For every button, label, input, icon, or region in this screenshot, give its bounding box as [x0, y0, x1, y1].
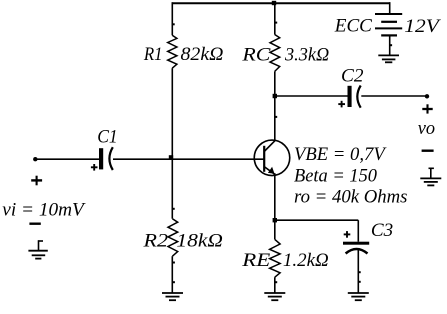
wire battery to ground: [389, 35, 391, 55]
svg-text:R1: R1: [143, 44, 163, 65]
svg-text:1.2kΩ: 1.2kΩ: [283, 250, 329, 271]
svg-text:82kΩ: 82kΩ: [181, 44, 224, 65]
capacitor C1: [99, 148, 103, 169]
wire RC top lead: [274, 2, 276, 34]
svg-text:Beta = 150: Beta = 150: [294, 166, 377, 187]
wire top rail: [173, 2, 391, 4]
ground under R2: [162, 292, 183, 294]
svg-text:VBE = 0,7V: VBE = 0,7V: [294, 144, 387, 165]
resistor R2: [168, 219, 178, 257]
svg-text:ECC: ECC: [334, 16, 372, 37]
resistor R1: [168, 35, 177, 68]
node collector junction: [273, 94, 277, 98]
wire input to C1: [35, 158, 99, 160]
capacitor C3: [343, 242, 369, 245]
plus of vo: [422, 108, 432, 110]
plus of C3: [344, 233, 351, 235]
svg-text:18kΩ: 18kΩ: [176, 230, 223, 251]
capacitor C2: [348, 86, 352, 107]
wire R1 bottom to base node: [171, 68, 173, 159]
wire emitter node to C3: [275, 219, 359, 221]
plus of vi: [31, 179, 42, 181]
node base junction: [169, 155, 173, 159]
wire RC bottom to collector: [274, 71, 276, 140]
transistor emitter diagonal: [264, 167, 274, 175]
minus of vi: [29, 222, 40, 224]
svg-text:RE: RE: [241, 250, 271, 271]
plus of C2: [338, 103, 345, 105]
transistor base bar: [263, 146, 265, 172]
wire collector node to C2: [275, 95, 348, 97]
ground of battery: [378, 54, 399, 56]
wire R2 to ground: [171, 256, 173, 293]
svg-text:vo: vo: [418, 118, 435, 139]
wire emitter down: [274, 173, 276, 239]
wire C3 top lead: [357, 220, 359, 242]
svg-text:3.3kΩ: 3.3kΩ: [284, 44, 329, 65]
transistor collector diagonal: [264, 140, 275, 151]
node output terminal: [425, 94, 429, 98]
resistor RE: [270, 239, 281, 277]
ground at input: [39, 240, 44, 242]
svg-text:R2: R2: [142, 230, 168, 251]
transistor emitter arrow: [268, 167, 275, 174]
wire C3 to ground: [357, 250, 359, 293]
wire R1 top lead: [171, 2, 173, 35]
transistor Q1 circle: [254, 140, 290, 176]
ground under RE: [264, 292, 285, 294]
ground at vo: [429, 167, 434, 169]
wire C1 to base: [113, 158, 264, 160]
minus of vo: [422, 149, 434, 151]
resistor RC: [270, 35, 280, 72]
battery ECC stub: [389, 2, 391, 14]
svg-text:C1: C1: [97, 127, 118, 148]
ground under C3: [348, 292, 369, 294]
svg-text:RC: RC: [241, 44, 271, 65]
svg-text:12V: 12V: [404, 16, 441, 37]
node input terminal: [33, 157, 37, 161]
node top junction: [272, 1, 276, 5]
node emitter junction: [273, 218, 277, 222]
wire RE to ground: [274, 277, 276, 293]
svg-text:ro = 40k Ohms: ro = 40k Ohms: [294, 187, 407, 208]
svg-text:vi = 10mV: vi = 10mV: [2, 199, 86, 220]
wire C2 to output: [361, 95, 427, 97]
svg-text:C2: C2: [341, 66, 364, 87]
battery ECC plates: [375, 13, 402, 15]
svg-text:C3: C3: [371, 220, 393, 241]
plus of C1: [91, 166, 98, 168]
wire base node to R2: [171, 159, 173, 219]
